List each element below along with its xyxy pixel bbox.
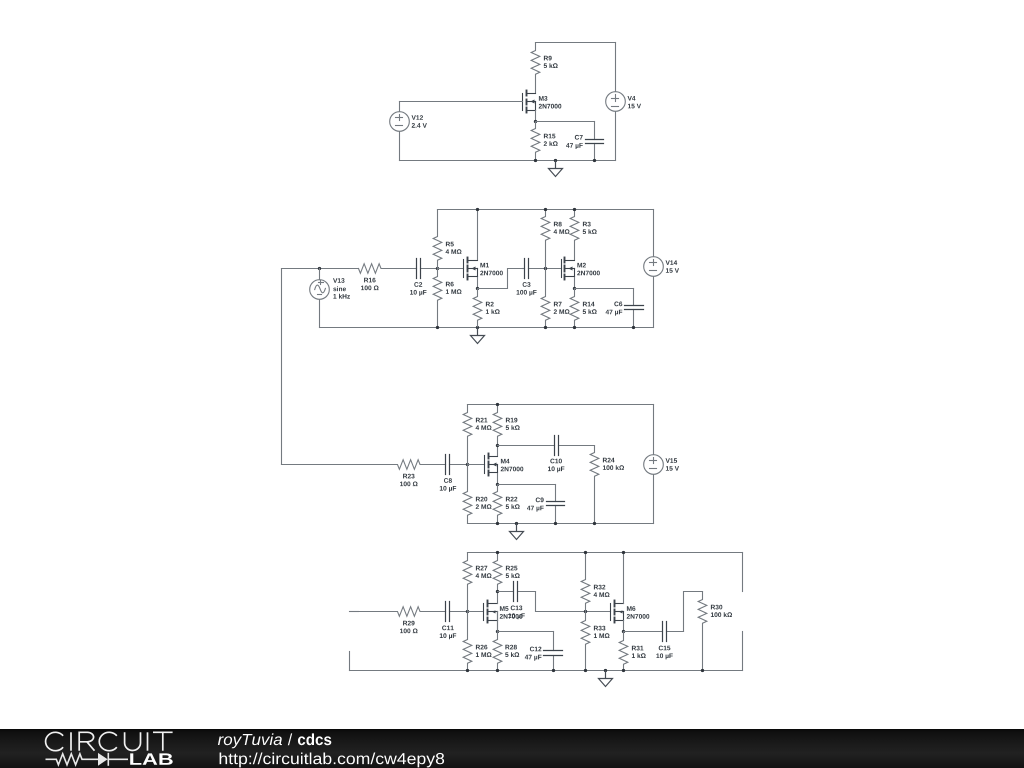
wire: bias node to M4 gate [468,464,485,466]
resistor R15 [531,122,540,161]
wire: right top stub [742,553,744,592]
wire: bias node to M1 gate [438,268,464,270]
junction: R27/R26 bias node [466,610,469,613]
wire: right bottom stub [742,632,744,671]
junction: C7 bottom [593,159,596,162]
junction: M6 drain at rail [622,551,625,554]
junction: M4 drain node [496,444,499,447]
wire: R32/R33 node to M6 gate [586,611,611,613]
wire: stage3 bottom rail [468,523,654,525]
junction: R19 top [496,403,499,406]
wire: stage4 bottom rail [350,670,743,672]
transistor M6 [611,601,624,623]
wire: M2 source to C6 [575,288,634,290]
wire: stage4 top rail [468,552,743,554]
wire: stage2 input left segment [282,268,359,270]
junction: R22 bottom [496,522,499,525]
junction: R21/R20 bias node [466,463,469,466]
junction: R14 bottom [573,326,576,329]
resistor R3 [570,210,579,260]
resistor R28 [493,612,502,671]
junction: M1 drain at rail [476,208,479,211]
transistor M2 [562,258,575,280]
resistor R21 [463,405,472,465]
transistor M1 [464,258,478,280]
wire: M4 source to C9 [498,484,556,486]
junction: R2 bottom / ground [476,326,479,329]
resistor R7 [541,269,550,328]
capacitor C6 [633,289,635,306]
voltage source V13 (sine) [319,269,321,280]
junction: V13 top [318,267,321,270]
ground [599,671,613,687]
wire: stage3 top rail [468,404,654,406]
junction: R24 bottom [593,522,596,525]
wire: M4 source down [497,474,499,485]
voltage source V4 [615,43,617,92]
junction: C6 bottom [632,326,635,329]
resistor R6 [433,269,442,328]
junction: R3 top [573,208,576,211]
wire: M6 source down [623,621,625,632]
wire: M5 drain up [497,592,499,604]
wire: stage1 bottom rail [400,160,616,162]
capacitor C13 [498,591,514,593]
junction: M6 source node [622,630,625,633]
CircuitLab logo: CIRCUIT [46,732,173,750]
resistor R31 [619,632,628,671]
capacitor C11 [445,611,447,613]
junction: M4 source node [496,483,499,486]
wire: C13 down to M6 gate line [536,592,586,612]
CircuitLab logo: LAB [130,753,173,764]
ground [510,524,524,540]
junction: M5 drain node [496,590,499,593]
resistor R20 [463,465,472,524]
resistor R25 [493,553,502,592]
wire: M3 source down [535,111,537,122]
junction: M1 source node [476,287,479,290]
ground [471,328,485,344]
junction: R6 bottom [436,326,439,329]
junction: R31 bottom [622,669,625,672]
junction: C12 bottom [552,669,555,672]
wire: stage3 input left segment [282,464,359,466]
resistor R19 [493,405,502,446]
wire: M1 drain up [477,210,479,260]
resistor R26 [463,612,472,671]
junction: ground tap [515,522,518,525]
wire: V12 to M3 gate [400,101,523,103]
junction: R30 bottom [701,669,704,672]
voltage source V15 [653,405,655,455]
wire: C15 up to R30 [684,592,703,632]
capacitor C15 [624,631,663,633]
voltage source V14 [653,210,655,257]
wire: bias node to M5 gate [468,611,484,613]
junction: R32 top [584,551,587,554]
junction: R25 top [496,551,499,554]
wire: M1 source down [477,278,479,289]
junction: M3 source node [534,120,537,123]
wire: M1 source to C3 [478,269,523,289]
resistor R2 [473,289,482,328]
transistor M4 [485,454,498,476]
transistor M3 [523,91,536,113]
capacitor C12 [553,632,555,651]
resistor R5 [433,210,442,269]
CircuitLab logo: resistor-diode wire [46,753,129,766]
junction: R33 bottom [584,669,587,672]
wire: M5 source to C12 [498,631,554,633]
voltage source V12 [399,102,401,112]
junction: M5 source node [496,630,499,633]
capacitor C7 [594,122,596,140]
wire: stage1 top rail [536,42,616,44]
junction: R28 bottom [496,669,499,672]
resistor R30 [698,592,707,671]
footer bar [0,729,1024,768]
junction: R5/R6 bias node [436,267,439,270]
junction: ground tap [554,159,557,162]
junction: R8 top [544,208,547,211]
resistor R22 [493,485,502,524]
resistor R23 [359,460,446,470]
capacitor C3 [523,268,525,270]
resistor R29 [359,607,446,617]
junction: R7 bottom [544,326,547,329]
wire: M4 drain up [497,446,499,456]
junction: C9 bottom [554,522,557,525]
junction: R15 bottom [534,159,537,162]
wire: left bottom stub [349,652,351,671]
resistor R24 [590,446,599,524]
capacitor C2 [416,268,417,270]
capacitor C9 [555,485,557,502]
junction: R32/R33 node [584,610,587,613]
transistor M5 [484,601,498,623]
resistor R33 [581,612,590,671]
wire: stage2 bottom rail [320,327,654,329]
wire: M5 source down [497,621,499,632]
footer meta text [218,733,444,767]
resistor R8 [541,210,550,269]
wire: M6 drain up [623,553,625,604]
junction: R26 bottom [466,669,469,672]
resistor R14 [570,289,579,328]
resistor R9 [531,43,540,94]
resistor R27 [463,553,472,612]
wire: riser to stage3 input [281,269,283,465]
capacitor C8 [445,464,447,466]
junction: R8/R7 bias node [544,267,547,270]
resistor R32 [581,553,590,612]
capacitor C10 [498,445,555,447]
wire: M2 source down [574,278,576,289]
wire: source node to C7 [536,121,595,123]
resistor R16 [359,264,416,274]
junction: ground tap [604,669,607,672]
junction: M2 source node [573,287,576,290]
wire: stage4 input stub [350,611,359,613]
wire: stage2 top rail [438,209,654,211]
ground [549,161,563,177]
